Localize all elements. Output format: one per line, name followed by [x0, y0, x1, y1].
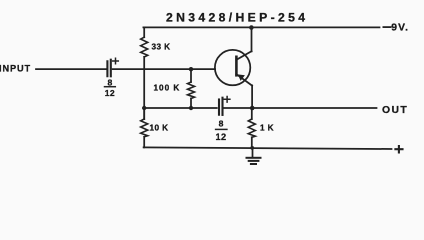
svg-text:1 K: 1 K [260, 123, 274, 132]
node junction base line to 100K [189, 67, 193, 71]
svg-text:INPUT: INPUT [0, 63, 31, 73]
wire emitter down to output line [251, 85, 253, 108]
transistor Q1 collector diagonal [236, 51, 251, 60]
wire 100K bottom lead [190, 99, 192, 109]
resistor R2 100K [188, 82, 195, 99]
transistor Q1 circle [215, 50, 250, 85]
svg-text:12: 12 [105, 88, 115, 98]
wire left vertical 33K bottom through base line down to middle line and 10K [143, 57, 145, 119]
polarity + of C1 [113, 58, 119, 64]
wire 1K top lead [251, 108, 253, 119]
wire 1K bottom lead to bottom rail [251, 137, 253, 148]
ground GND bars [247, 157, 261, 159]
wire collector to top rail [251, 27, 253, 51]
resistor R1 33K [141, 37, 148, 57]
label -9V. [383, 26, 390, 28]
resistor R3 10K [141, 119, 148, 137]
wire middle line left segment (divider junction to C2) [144, 107, 217, 109]
wire left vertical from top rail to 33K [143, 27, 145, 37]
node junction top rail to collector [249, 25, 254, 30]
svg-text:OUT: OUT [382, 105, 408, 116]
node junction bottom rail to ground [250, 146, 254, 150]
capacitor C2 8uF/12V [218, 100, 220, 115]
capacitor C1 8uF/12V [106, 61, 108, 76]
svg-text:100 K: 100 K [154, 83, 181, 92]
label + (bottom right terminal) [395, 146, 402, 152]
transistor Q1 base bar [235, 57, 238, 76]
svg-text:2N3428/HEP-254: 2N3428/HEP-254 [166, 10, 308, 24]
wire middle line C2 to OUT [224, 107, 376, 109]
node junction middle line at divider [142, 106, 146, 110]
wire top supply rail [143, 26, 379, 28]
wire input line C1 to transistor base [113, 68, 215, 70]
ground GND stub [252, 148, 254, 157]
svg-text:8: 8 [219, 118, 224, 128]
wire input line left of C1 [36, 68, 106, 70]
wire bottom rail [144, 147, 392, 149]
polarity + of C2 [224, 97, 230, 103]
svg-text:33 K: 33 K [152, 42, 171, 51]
transistor Q1 emitter diagonal [236, 74, 252, 85]
svg-text:9V.: 9V. [391, 23, 409, 34]
svg-text:8: 8 [108, 77, 113, 87]
transistor Q1 emitter arrow (PNP) [238, 74, 245, 81]
resistor R4 1K [248, 119, 255, 137]
wire 10K top lead [143, 108, 145, 119]
node junction emitter / 1K / out line [250, 106, 255, 111]
svg-text:12: 12 [215, 132, 226, 142]
wire 10K bottom lead to bottom rail [143, 137, 145, 148]
node junction middle line at 100K bottom [189, 106, 193, 110]
wire 100K top lead [190, 69, 192, 82]
svg-text:10 K: 10 K [150, 123, 169, 132]
